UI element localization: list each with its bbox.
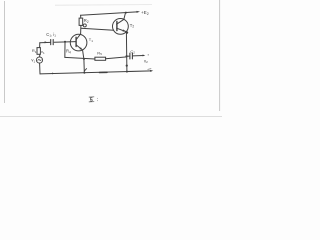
page rule top xyxy=(55,4,152,7)
wire midline feedback xyxy=(65,57,95,59)
arrowhead +E2 terminal xyxy=(137,11,141,13)
wire corner down to R1 xyxy=(39,43,41,48)
node T2 emitter junction xyxy=(126,31,128,33)
wire interstage to T2 base xyxy=(81,28,114,30)
wire T2 collector lead xyxy=(124,13,126,19)
node rail emitter junction xyxy=(83,72,85,74)
node midline emitter junction xyxy=(83,58,85,60)
wire T2 emitter down xyxy=(125,32,128,71)
wire top supply rail xyxy=(81,12,137,15)
node small circle under R2 label xyxy=(83,24,86,27)
svg-text:v2: v2 xyxy=(144,58,148,64)
wire T1 emitter down xyxy=(83,50,85,72)
svg-text:v1: v1 xyxy=(41,49,45,55)
source v1 xyxy=(36,57,42,63)
wire ground rail xyxy=(40,71,152,74)
wire input to C1 xyxy=(40,41,50,43)
resistor R5 xyxy=(95,57,106,60)
capacitor C2 xyxy=(130,53,133,59)
wire R2 top stub xyxy=(80,15,82,18)
wire source to ground rail xyxy=(39,63,41,74)
wire to C2 xyxy=(127,55,130,57)
wire rail thick segment xyxy=(100,71,108,73)
svg-text:R1: R1 xyxy=(32,48,37,54)
transistor T1 xyxy=(70,34,87,51)
wire base lead T1 xyxy=(54,41,76,44)
svg-text:T1: T1 xyxy=(89,37,93,43)
node lower junction xyxy=(126,65,128,67)
page border left xyxy=(4,1,6,103)
svg-text:v1: v1 xyxy=(31,58,35,64)
arrowhead ground rail end xyxy=(150,70,153,72)
page border right xyxy=(219,0,221,111)
svg-text:R4: R4 xyxy=(66,49,71,55)
node T1 base junction xyxy=(64,41,66,43)
page rule bottom xyxy=(0,115,222,117)
svg-text:T2: T2 xyxy=(130,23,135,29)
wire C2 to output terminal xyxy=(133,55,144,57)
wire R1 to source xyxy=(39,54,41,57)
node rail blob left xyxy=(52,73,54,75)
svg-text:R5: R5 xyxy=(97,50,102,56)
node output cap junction xyxy=(126,55,128,57)
svg-text:C2: C2 xyxy=(130,49,135,55)
arrowhead output xyxy=(143,55,146,57)
transistor T2 xyxy=(113,19,129,35)
tick at emitter ground xyxy=(84,69,86,72)
wire R2 bottom to T1 collector xyxy=(80,25,82,34)
node rail output junction xyxy=(126,71,128,73)
resistor R1 xyxy=(37,48,40,55)
wire R5 to output node xyxy=(106,57,127,59)
svg-text:R2: R2 xyxy=(84,18,89,24)
capacitor C1 xyxy=(51,40,54,45)
resistor R2 xyxy=(79,18,83,25)
label figure number 5 xyxy=(89,97,98,104)
resistor R4 lead xyxy=(64,43,66,58)
arrowhead current i1 xyxy=(45,41,48,43)
svg-text:5: 5 xyxy=(90,98,93,104)
node junction rail/T2 collector xyxy=(125,12,127,14)
tick near rail end xyxy=(148,68,151,71)
node output dot xyxy=(148,54,149,55)
